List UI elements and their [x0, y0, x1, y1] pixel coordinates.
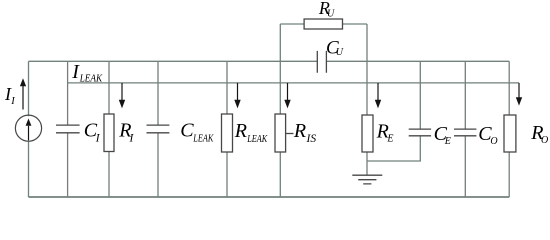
svg-text:R: R — [293, 120, 306, 142]
svg-text:O: O — [541, 135, 548, 146]
svg-text:IS: IS — [306, 133, 317, 145]
svg-text:I: I — [129, 133, 135, 145]
svg-text:LEAK: LEAK — [192, 134, 214, 145]
svg-text:R: R — [234, 120, 247, 142]
svg-text:U: U — [336, 47, 344, 58]
svg-text:LEAK: LEAK — [79, 73, 104, 84]
svg-text:E: E — [444, 136, 451, 147]
svg-text:I: I — [10, 96, 15, 107]
svg-text:E: E — [386, 133, 393, 144]
svg-text:I: I — [95, 133, 101, 145]
svg-text:O: O — [490, 136, 497, 147]
svg-text:C: C — [180, 119, 194, 141]
svg-text:U: U — [327, 9, 335, 20]
svg-text:LEAK: LEAK — [246, 134, 268, 145]
